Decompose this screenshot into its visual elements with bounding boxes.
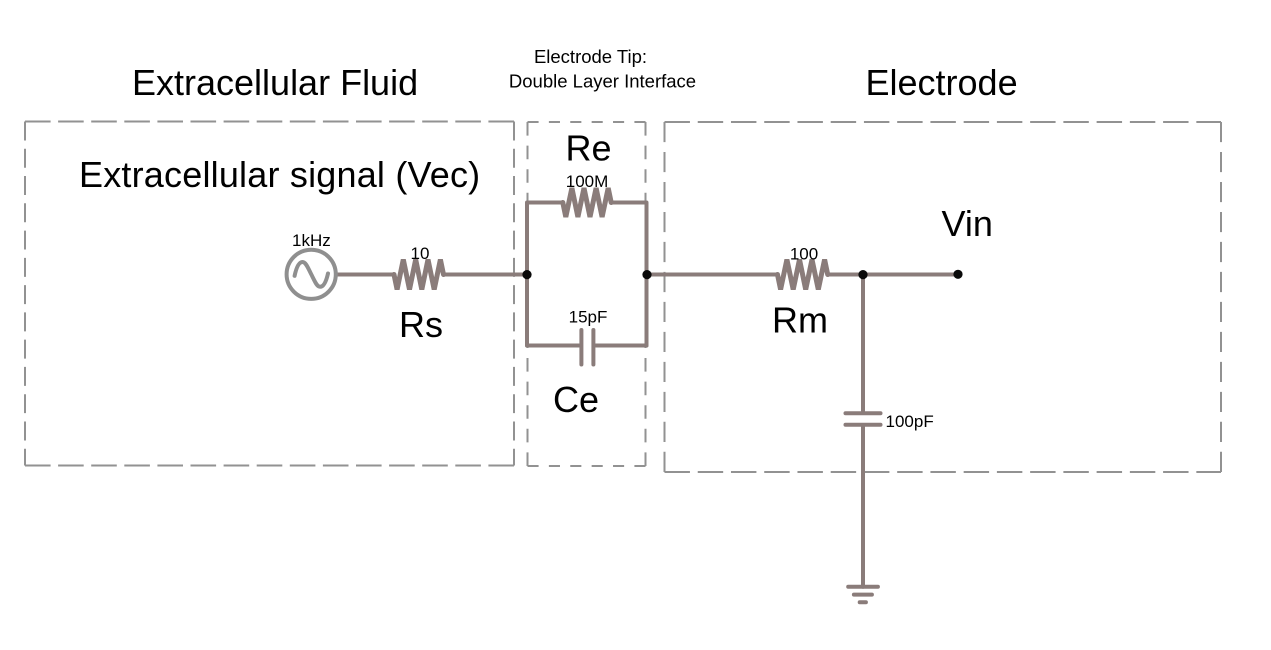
svg-text:Re: Re [566, 128, 612, 169]
svg-text:Rs: Rs [399, 304, 443, 345]
svg-text:1kHz: 1kHz [292, 231, 331, 250]
svg-text:Vin: Vin [942, 203, 993, 244]
svg-text:100M: 100M [566, 172, 609, 191]
svg-text:Extracellular Fluid: Extracellular Fluid [132, 62, 418, 103]
svg-text:Extracellular signal (Vec): Extracellular signal (Vec) [79, 154, 480, 195]
svg-text:Electrode: Electrode [866, 62, 1018, 103]
svg-text:10: 10 [411, 244, 430, 263]
svg-text:Double Layer Interface: Double Layer Interface [509, 71, 696, 92]
svg-text:Electrode Tip:: Electrode Tip: [534, 46, 647, 67]
svg-text:Rm: Rm [772, 300, 828, 341]
svg-text:Ce: Ce [553, 379, 599, 420]
svg-text:100: 100 [790, 245, 818, 264]
svg-text:15pF: 15pF [569, 308, 608, 327]
svg-text:100pF: 100pF [886, 412, 934, 431]
